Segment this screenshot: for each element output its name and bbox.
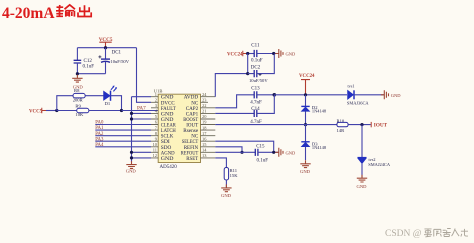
wire: R8 to LED: [85, 95, 103, 97]
svg-text:15K: 15K: [230, 173, 239, 178]
wire: AVDD up to DC2 row: [215, 74, 247, 97]
svg-text:VCC24: VCC24: [299, 74, 315, 79]
svg-text:4-20mA: 4-20mA: [2, 5, 55, 22]
svg-text:C12: C12: [84, 59, 93, 64]
resistor R10: [337, 118, 349, 133]
svg-text:SMAJ36CA: SMAJ36CA: [347, 101, 370, 106]
port IOUT: [371, 122, 387, 128]
power port VCC24 right: [299, 74, 315, 95]
ground right of C15: [275, 148, 296, 157]
ground under R11: [221, 184, 232, 198]
wire: SELECT to REFOUT node: [215, 141, 273, 152]
power port VCC5: [99, 37, 113, 48]
LED D1: [104, 86, 118, 107]
wire: FAULT net to chip: [122, 110, 159, 112]
svg-text:3: 3: [155, 103, 158, 108]
svg-text:11: 11: [153, 148, 157, 153]
chip right pin names: [181, 95, 199, 162]
svg-text:1N4148: 1N4148: [312, 145, 327, 150]
svg-text:15: 15: [202, 142, 207, 147]
wire: DC2 row and right vertical: [248, 54, 275, 74]
wire: C12/DC1 bottom join: [77, 73, 105, 75]
svg-text:AD5420: AD5420: [160, 165, 178, 170]
chip left pin numbers 1-12: [153, 92, 158, 158]
resistor R11: [224, 168, 238, 181]
diode D2 1N4148: [301, 95, 327, 125]
wire: C11 to GND: [257, 53, 279, 55]
svg-text:10K: 10K: [75, 112, 84, 117]
wire: A to R9 to B: [57, 110, 122, 112]
junction dot after R10: [360, 123, 363, 126]
svg-text:IOUT: IOUT: [374, 122, 388, 128]
wire: pin1 GND row: [132, 96, 152, 98]
chip right pin numbers 24-13: [202, 92, 207, 158]
capacitor C14: [250, 107, 262, 125]
svg-text:2: 2: [155, 98, 157, 103]
wire: pin5 GND row: [132, 118, 152, 120]
svg-text:21: 21: [202, 109, 206, 114]
svg-text:14: 14: [202, 148, 207, 153]
svg-text:GND: GND: [286, 150, 296, 155]
ground under chip bus: [126, 161, 137, 173]
chip left pin names: [161, 95, 177, 162]
capacitor DC2 electrolytic: [249, 65, 268, 83]
svg-text:GND: GND: [221, 193, 232, 198]
svg-text:4.7nF: 4.7nF: [250, 100, 262, 105]
chip right pin stubs: [201, 97, 216, 158]
svg-text:9: 9: [155, 136, 158, 141]
svg-text:23: 23: [202, 98, 207, 103]
wire: REFOUT row: [215, 151, 255, 153]
svg-text:22: 22: [202, 103, 206, 108]
watermark CJK glyphs: [424, 228, 468, 236]
wire: C14 right up to C13 node: [257, 95, 275, 114]
wire: VCC24 to C11: [246, 53, 254, 55]
svg-text:1N4148: 1N4148: [312, 108, 327, 113]
wire: CAP2 to C13: [215, 95, 254, 108]
TVS diode tvs1 SMAJ36CA: [347, 83, 370, 105]
diode D3 1N4148: [301, 125, 327, 161]
wire: R11 to GND: [225, 180, 227, 188]
svg-text:C15: C15: [256, 144, 265, 149]
wire: VCC5 to junction A: [46, 110, 57, 112]
junction dot under C12: [76, 72, 79, 75]
svg-text:8: 8: [155, 131, 158, 136]
title: 4-20mA output: [2, 5, 91, 22]
watermark CSDN: [385, 228, 468, 239]
svg-text:tvs1: tvs1: [348, 83, 355, 88]
ground under tvs2: [357, 175, 368, 189]
junction dot pin5: [130, 117, 133, 120]
svg-text:GND: GND: [300, 169, 311, 174]
svg-text:19: 19: [202, 120, 207, 125]
capacitor DC1 electrolytic: [98, 48, 129, 74]
junction dot at VCC5 rail: [104, 46, 107, 49]
svg-text:VCC5: VCC5: [29, 109, 43, 114]
capacitor C15: [255, 144, 268, 163]
junction dot left of C11: [246, 52, 249, 55]
svg-text:6: 6: [155, 120, 158, 125]
svg-text:GND: GND: [357, 184, 368, 189]
svg-text:14R: 14R: [337, 128, 346, 133]
svg-text:0.1uF: 0.1uF: [251, 59, 263, 64]
svg-text:C14: C14: [251, 107, 260, 112]
svg-text:GND: GND: [286, 52, 296, 57]
svg-text:200R: 200R: [73, 97, 84, 102]
svg-text:0.1uF: 0.1uF: [257, 159, 269, 164]
ground under C12: [72, 75, 83, 90]
svg-text:16: 16: [202, 136, 207, 141]
svg-text:24: 24: [202, 92, 207, 97]
ground right of C11: [275, 49, 296, 58]
svg-text:D1: D1: [105, 101, 111, 106]
power port VCC24 at C11: [227, 51, 246, 58]
svg-text:DC2: DC2: [251, 65, 261, 70]
svg-text:PA7: PA7: [137, 105, 146, 111]
chip left pin stubs: [151, 97, 158, 158]
svg-text:GND: GND: [126, 168, 137, 173]
capacitor C12: [74, 48, 95, 74]
junction dot C13 right: [273, 93, 277, 97]
wire: junction A up to R8 row: [57, 96, 73, 111]
junction dot pin12: [130, 156, 133, 159]
resistor R9: [75, 104, 88, 117]
glyph chu (output char 2): [78, 5, 91, 16]
capacitor C13: [250, 86, 262, 105]
svg-text:4: 4: [155, 109, 158, 114]
svg-text:DC1: DC1: [112, 50, 122, 55]
wire: VCC24 row to tvs1: [274, 94, 347, 96]
wire: DVCC from rail down to pin 2: [137, 48, 152, 103]
svg-text:RSET: RSET: [186, 156, 199, 162]
wire: tvs1 to GND: [354, 94, 384, 96]
wire: vertical joining C11 and DC2 rows (left): [247, 54, 249, 74]
svg-text:R8: R8: [74, 88, 80, 93]
capacitor C11: [251, 43, 263, 63]
svg-text:1: 1: [155, 92, 157, 97]
junction dot pin4: [130, 112, 133, 115]
wire: pin12 GND row: [132, 157, 152, 159]
wire: RSET down to R11: [215, 158, 226, 168]
svg-text:10uF/50V: 10uF/50V: [249, 78, 268, 83]
junction A dot: [55, 109, 58, 112]
svg-text:SMAJ24CA: SMAJ24CA: [368, 162, 391, 167]
svg-text:17: 17: [202, 131, 207, 136]
junction dot right of C15: [272, 151, 275, 154]
op-amp U1B chip AD5420 body: [154, 88, 201, 170]
glyph shu (output char 1): [56, 5, 75, 17]
junction dot REFIN/REFOUT: [240, 151, 243, 154]
GND bus left of chip: [131, 97, 133, 163]
junction dot pin11: [130, 151, 133, 154]
svg-text:10: 10: [153, 142, 158, 147]
ground under D3: [300, 160, 311, 174]
svg-text:CSDN @: CSDN @: [385, 229, 422, 239]
svg-text:VCC24: VCC24: [227, 52, 243, 57]
wire: CAP1 to C14: [215, 112, 254, 114]
wire: VCC5 rail horizontal: [77, 47, 136, 49]
power port VCC5 left net label: [29, 108, 46, 115]
junction dot DC2 row left: [246, 72, 249, 75]
junction dot VCC24 on row: [304, 93, 307, 96]
wire: C15 to GND: [258, 151, 278, 153]
junction dot right of C11: [272, 52, 275, 55]
wire: LED cathode to junction B: [111, 96, 122, 111]
ground right of tvs1: [381, 90, 401, 99]
svg-text:GND: GND: [161, 156, 174, 162]
svg-text:12: 12: [153, 153, 157, 158]
TVS diode tvs2 SMAJ24CA: [358, 125, 391, 178]
svg-text:13: 13: [202, 153, 207, 158]
svg-text:7: 7: [155, 125, 158, 130]
junction B dot: [120, 109, 123, 112]
svg-text:C11: C11: [251, 43, 260, 48]
svg-text:18: 18: [202, 125, 207, 130]
wire: C13 to junction: [257, 94, 275, 96]
junction dot D2/D3 on IOUT row: [304, 123, 307, 126]
resistor R8: [73, 88, 86, 103]
wire: pin11 AGND row: [132, 151, 152, 153]
wire: REFIN down to REFOUT row: [215, 147, 242, 153]
svg-text:5: 5: [155, 114, 158, 119]
wire: R10 to IOUT port: [348, 124, 371, 126]
wire: pin4 GND row: [132, 112, 152, 114]
svg-text:0.1uF: 0.1uF: [83, 65, 95, 70]
svg-text:20: 20: [202, 114, 207, 119]
wire: IOUT row from chip: [215, 124, 337, 126]
svg-text:GND: GND: [391, 93, 401, 98]
svg-text:C13: C13: [251, 86, 260, 91]
svg-text:10uF/50V: 10uF/50V: [110, 59, 129, 64]
